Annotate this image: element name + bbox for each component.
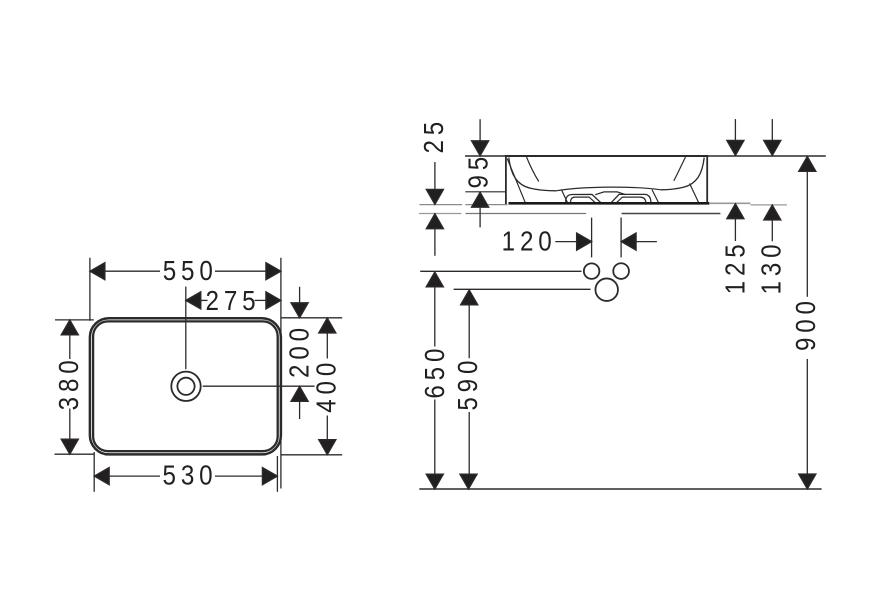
drain housing right diagonal (652, 190, 659, 203)
floor/bottom reference line (419, 488, 821, 490)
extension line 380 top (55, 319, 94, 321)
drain horizontal line to right dims (203, 385, 315, 387)
svg-text:650: 650 (421, 344, 451, 399)
basin left outer edge (505, 156, 507, 204)
drain inner circle (177, 378, 194, 395)
dimension 900 (799, 156, 816, 489)
extension line right vertical (550/275) (280, 258, 282, 489)
extension line 530 left (93, 452, 95, 492)
rim line left extension (465, 155, 506, 157)
590 reference line (454, 288, 591, 290)
dimension 200 (291, 287, 308, 419)
basin rim top line (505, 155, 708, 157)
dimension 25 (426, 162, 443, 256)
basin right corner diagonal (690, 184, 699, 203)
dimension 95 (472, 119, 489, 227)
dimension 400 (319, 318, 336, 455)
counter line A left stubs (420, 204, 508, 206)
dimension 530 (94, 468, 277, 485)
faucet hole circle left (584, 263, 600, 279)
dimension 550 (90, 263, 281, 280)
extension line 380 bottom (55, 453, 95, 455)
bowl floor line (556, 187, 661, 191)
dimension 130 (764, 119, 781, 241)
extension line 200/400 top (281, 317, 342, 319)
counter line B segments (419, 213, 462, 215)
dimension 125 (727, 119, 744, 241)
extension line left vertical (550) (89, 258, 91, 321)
svg-text:380: 380 (55, 355, 85, 410)
650 reference line (420, 270, 581, 272)
basin right outer edge (706, 156, 708, 203)
drain housing left diagonal (561, 190, 567, 203)
basin base contact line (thick) (509, 202, 710, 205)
svg-text:400: 400 (312, 358, 342, 413)
rim line right extension (707, 155, 826, 157)
svg-text:125: 125 (721, 239, 751, 294)
faucet hole circle right (613, 263, 629, 279)
drain outer circle (171, 372, 200, 401)
dimension 590 (460, 290, 478, 489)
svg-text:275: 275 (206, 286, 261, 316)
dimension 650 (426, 272, 443, 489)
svg-text:530: 530 (163, 461, 218, 491)
basin left corner diagonal (507, 159, 525, 204)
svg-text:120: 120 (502, 227, 557, 257)
dimension 275 (186, 292, 281, 309)
dimension 380 (61, 320, 78, 454)
svg-text:95: 95 (464, 152, 494, 189)
foot pad left inner (571, 197, 596, 203)
basin inner wall curve right (661, 158, 704, 190)
foot pad right outer (611, 194, 651, 202)
extension line 200/400 bottom (281, 454, 342, 456)
basin secondary curve right (674, 157, 686, 181)
svg-text:590: 590 (454, 356, 484, 411)
svg-text:900: 900 (791, 296, 821, 351)
dimension 120 (555, 218, 657, 258)
svg-text:25: 25 (420, 117, 450, 154)
drain boss trapezoid (595, 192, 626, 195)
basin secondary curve left (527, 157, 539, 182)
basin inner rounded rectangle (93, 321, 278, 451)
svg-text:550: 550 (163, 256, 218, 286)
drain hole circle (large) (595, 278, 618, 301)
svg-text:200: 200 (285, 323, 315, 378)
extension line 530 right (276, 456, 278, 492)
drain center vertical line (185, 287, 187, 370)
foot pad left outer (566, 194, 601, 202)
95 lower reference line (465, 191, 506, 193)
basin outer rounded rectangle (90, 318, 281, 454)
basin inner wall curve left (509, 158, 556, 191)
svg-text:130: 130 (757, 240, 787, 295)
foot pad right inner (617, 197, 646, 203)
counter line A right gray segments (709, 202, 750, 204)
